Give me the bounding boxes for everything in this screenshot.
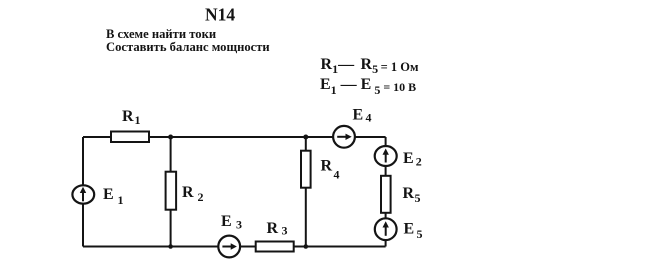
svg-text:4: 4 — [366, 111, 372, 125]
resistor R2 — [166, 172, 204, 210]
node A top junction — [168, 135, 173, 140]
instruction line 1 — [106, 27, 216, 41]
svg-text:В схеме найти токи: В схеме найти токи — [106, 27, 216, 41]
svg-text:E: E — [103, 186, 114, 203]
node C bottom junction — [168, 244, 173, 249]
EMF source E4 — [333, 107, 371, 148]
svg-text:1: 1 — [118, 193, 124, 207]
svg-text:E1 — E 5 = 10 В: E1 — E 5 = 10 В — [320, 76, 416, 97]
resistor R4 — [301, 151, 340, 188]
svg-text:R: R — [403, 185, 415, 202]
svg-text:N14: N14 — [205, 5, 235, 25]
svg-text:E: E — [353, 107, 364, 124]
wire right — [385, 137, 387, 247]
resistor R5 — [381, 176, 421, 213]
svg-text:R1—R5 = 1 Ом: R1—R5 = 1 Ом — [321, 56, 419, 76]
value label E1 - E5 = 10 V — [320, 76, 416, 97]
svg-text:R: R — [267, 220, 279, 237]
title N14 — [205, 5, 235, 25]
svg-text:E: E — [221, 213, 232, 230]
svg-text:R: R — [122, 108, 134, 125]
EMF source E2 — [375, 146, 422, 169]
svg-text:3: 3 — [282, 224, 288, 238]
svg-text:1: 1 — [135, 113, 141, 127]
node B top junction — [303, 135, 308, 140]
svg-text:5: 5 — [417, 227, 423, 241]
svg-text:Составить баланс мощности: Составить баланс мощности — [106, 40, 270, 54]
svg-text:3: 3 — [236, 218, 242, 232]
wire R2 branch — [170, 137, 172, 247]
node D bottom junction — [304, 244, 309, 249]
svg-text:R: R — [321, 158, 333, 175]
wire left — [82, 137, 84, 247]
svg-text:2: 2 — [198, 190, 204, 204]
EMF source E5 — [375, 218, 423, 241]
svg-text:5: 5 — [415, 191, 421, 205]
svg-text:E: E — [404, 221, 415, 238]
EMF source E1 — [72, 185, 123, 207]
svg-text:4: 4 — [334, 168, 340, 182]
instruction line 2 — [106, 40, 270, 54]
resistor R3 — [256, 220, 294, 252]
wire bottom — [83, 246, 386, 248]
wire top — [83, 136, 386, 138]
EMF source E3 — [218, 213, 242, 257]
value label R1 - R5 = 1 Om — [321, 56, 419, 76]
svg-text:R: R — [182, 184, 194, 201]
svg-text:2: 2 — [416, 155, 422, 169]
svg-text:E: E — [403, 150, 414, 167]
wire R4 branch — [305, 137, 307, 247]
resistor R1 — [111, 108, 149, 142]
